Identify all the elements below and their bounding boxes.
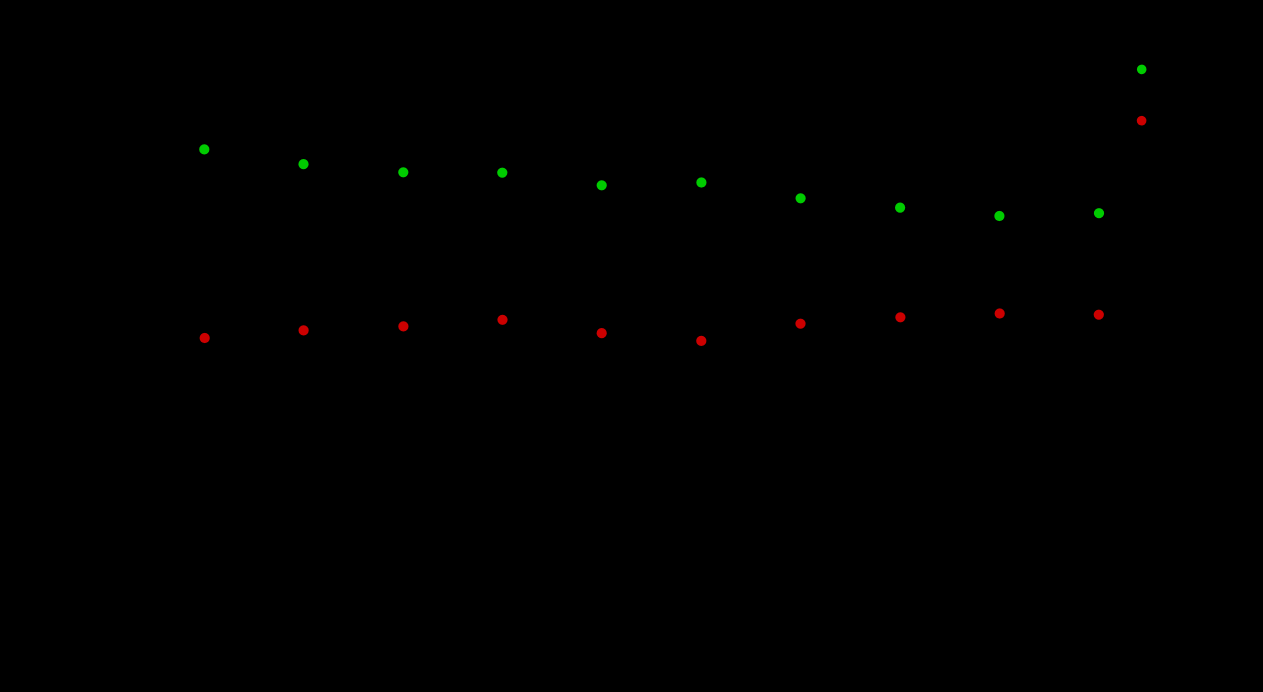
green point 3 [398,167,408,177]
red point 7 [795,319,805,329]
red point 4 [497,315,507,325]
green point 7 [796,193,806,203]
red point 1 [200,333,210,343]
red point 5 [597,328,607,338]
green point 5 [597,180,607,190]
red point 8 [895,312,905,322]
red point 9 [995,308,1005,318]
green point 4 [497,168,507,178]
green point 9 [994,211,1004,221]
red point 2 [299,325,309,335]
green point 1 [199,144,209,154]
green point 6 [696,177,706,187]
green point 10 [1094,208,1104,218]
green point 2 [298,159,308,169]
legend marker: green series [1137,65,1147,75]
red point 6 [696,336,706,346]
legend marker: red series [1137,116,1147,126]
green point 8 [895,203,905,213]
red point 3 [398,321,408,331]
red point 10 [1094,310,1104,320]
